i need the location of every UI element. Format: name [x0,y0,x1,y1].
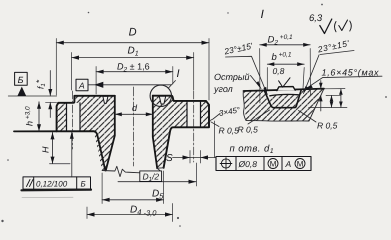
roughness check on gasket ridge [279,78,290,87]
svg-text:S: S [166,153,173,164]
parallelism tolerance frame [23,177,91,189]
svg-text:М: М [270,160,277,169]
extension line right of flange [213,121,215,158]
dimension b +0,1 detail [267,68,304,90]
dimension D1 [72,53,194,91]
d1 dimension arrows with frame leader [173,157,217,159]
parenthesized check [335,22,337,32]
dimension D [56,39,209,101]
position tolerance frame [216,157,311,171]
gasket ridge above face [277,87,295,91]
depth dim bump-bottom [331,95,333,107]
datum A box with arrow [76,79,88,91]
svg-text:Ø0,8: Ø0,8 [238,159,258,169]
svg-text:H: H [41,146,51,153]
flange right slab hatched region [153,96,187,169]
svg-text:А: А [285,159,292,169]
right bolt hole [187,101,201,127]
svg-text:п отв. d1: п отв. d1 [230,144,275,156]
depth dim face-bump outside arrows [320,81,322,112]
bolt hole axis left [72,91,74,149]
roughness check mark [320,19,332,34]
flange outline right [153,96,209,168]
svg-text:Острый: Острый [214,72,250,82]
svg-text:6,3: 6,3 [309,13,323,24]
svg-text:Б: Б [18,75,24,85]
svg-text:угол: угол [213,84,233,94]
dimension h +3,0 [38,102,40,132]
svg-text:М: М [297,160,304,169]
left bolt hole [67,103,81,131]
bore walls [106,96,157,171]
detail face line [244,89,325,91]
detail I circle [150,85,171,106]
flange outline left [8,95,56,97]
dimension f1 [49,71,51,118]
datum B symbol [15,72,28,85]
svg-text:0,12/100: 0,12/100 [36,179,68,188]
svg-text:I: I [177,68,180,80]
svg-text:А: А [78,81,85,91]
detail break edges [243,89,324,121]
depth extension lines right [309,89,347,108]
flange left slab hatched region [57,103,67,132]
hub bottom edge and break line [102,166,140,176]
dimension D2 +-1,6 [96,67,173,95]
groove walls and bottom [265,90,302,108]
svg-text:R 0,5: R 0,5 [238,125,259,135]
groove notch left [103,96,108,103]
gasket sectioned fill inside groove [270,94,299,107]
svg-text:1,6×45°(мах: 1,6×45°(мах [322,68,380,78]
svg-text:D: D [129,27,137,39]
tolerance frame heavy bottom edge [22,189,92,192]
gasket bottom line in groove [270,94,299,95]
dimension D2 +0,1 detail [260,49,311,104]
svg-text:0,8: 0,8 [273,66,285,76]
dimension D5 [102,171,164,204]
dimension D4 -3,0 [87,204,173,222]
svg-text:R 0,5: R 0,5 [219,126,240,136]
centerline axis [132,87,134,166]
frame leader to slab bottom [71,132,73,177]
dimension D1/2 boxed with line [118,181,196,183]
bolt hole axis right [193,91,195,162]
svg-text:R 0,5: R 0,5 [317,121,338,131]
svg-text:Б: Б [81,180,86,189]
depth dim face-bottom [340,89,342,108]
detail block hatched [244,89,325,121]
dimension H [52,132,54,163]
dimension d [115,113,153,115]
scan ghost line below frame [22,196,73,198]
groove notch right [159,96,165,104]
